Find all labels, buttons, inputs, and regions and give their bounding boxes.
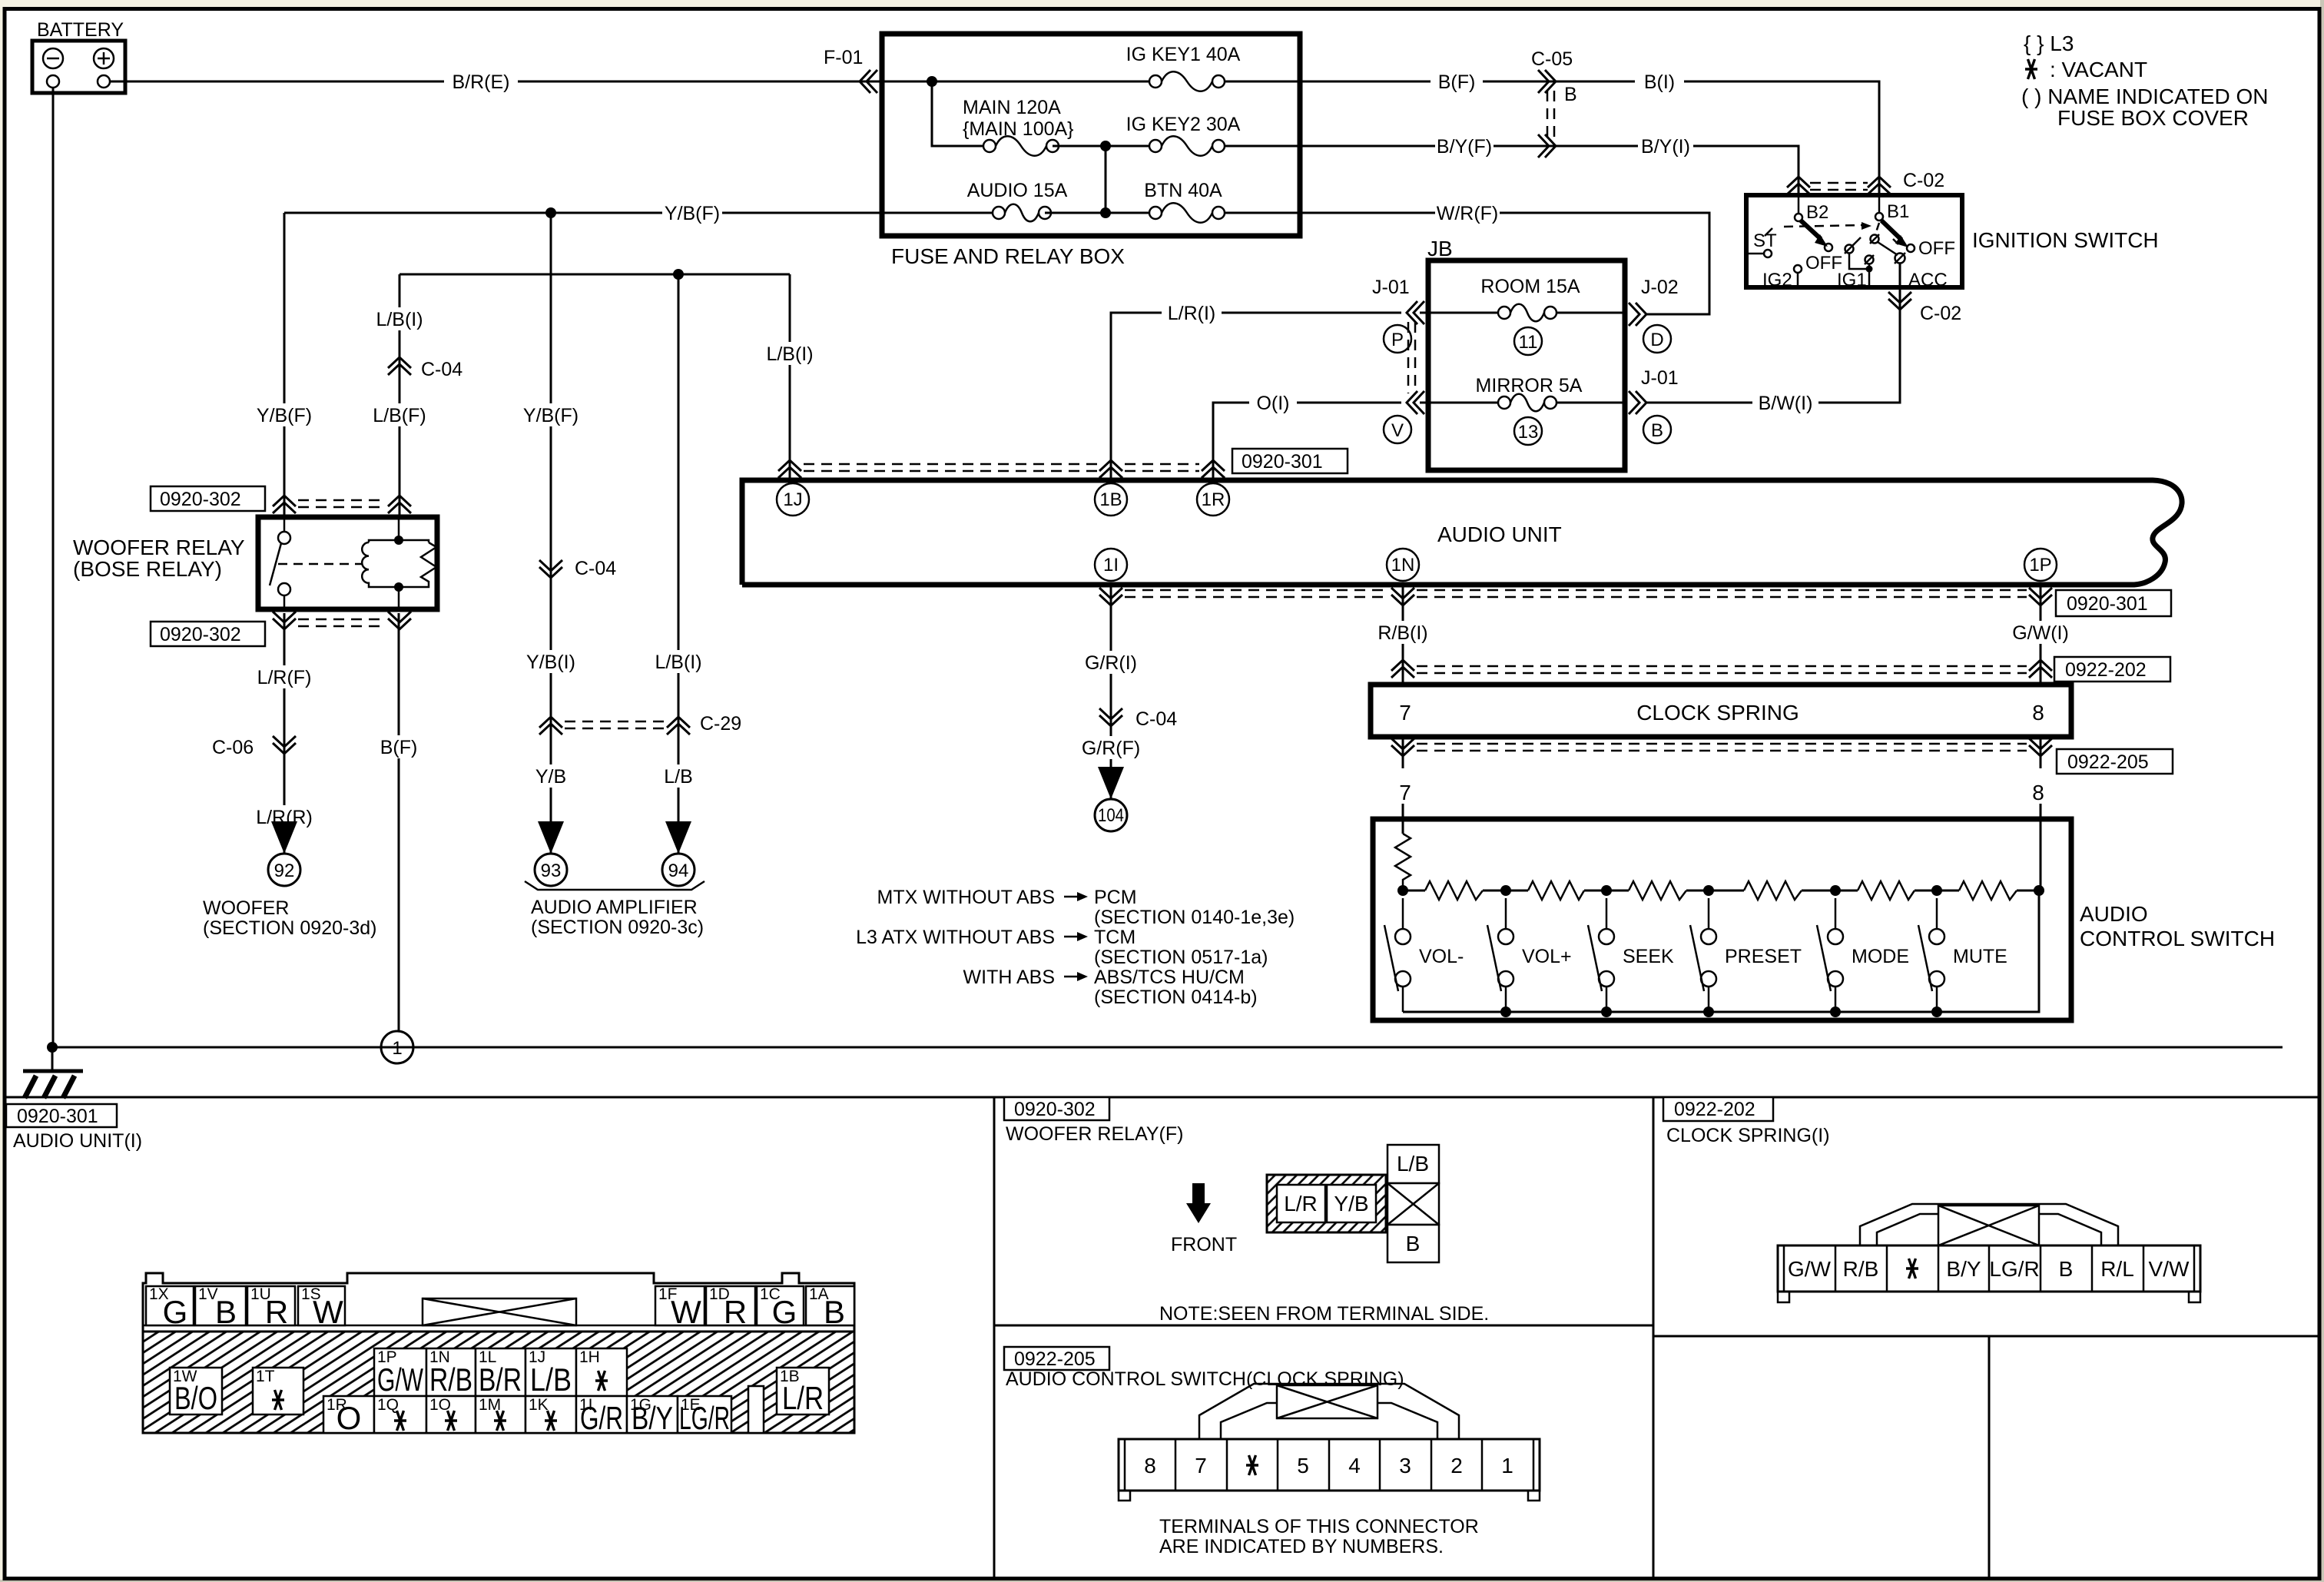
node D (1643, 325, 1671, 353)
svg-text:0920-301: 0920-301 (17, 1106, 98, 1127)
connector body (1119, 1439, 1540, 1491)
clock spring connector drawing (1778, 1204, 2200, 1302)
svg-text:LG/R: LG/R (679, 1400, 730, 1436)
svg-text:R/B: R/B (429, 1361, 472, 1398)
connector chevrons above audio unit (778, 460, 1225, 478)
svg-text:(SECTION 0414-b): (SECTION 0414-b) (1094, 987, 1258, 1008)
svg-text:B(I): B(I) (1644, 71, 1675, 93)
audio control switch connector drawing (1119, 1384, 1540, 1557)
relay coil (362, 519, 436, 607)
svg-text:ROOM 15A: ROOM 15A (1480, 276, 1580, 297)
svg-text:VOL-: VOL- (1419, 946, 1464, 967)
wire L/R(F) down (283, 613, 286, 854)
pin 1K vacant (525, 1396, 576, 1433)
connector 0920-302 upper label (151, 486, 265, 511)
node L/B branch (673, 269, 684, 280)
svg-text:IG KEY1 40A: IG KEY1 40A (1126, 44, 1241, 65)
divider vertical left (993, 1097, 996, 1577)
section 0922-205 label (1004, 1347, 1109, 1370)
wire ACC down to C-02 (1899, 263, 1901, 310)
svg-text:PRESET: PRESET (1725, 946, 1802, 967)
svg-text:R: R (724, 1294, 747, 1330)
svg-text:7: 7 (1195, 1454, 1207, 1478)
resistor vertical (1395, 834, 1411, 890)
svg-text:L/B(I): L/B(I) (655, 652, 701, 673)
svg-text:{MAIN 100A}: {MAIN 100A} (963, 118, 1074, 140)
svg-text:J-01: J-01 (1372, 277, 1410, 298)
arrow to 94 (665, 821, 691, 854)
svg-text:MAIN 120A: MAIN 120A (963, 97, 1061, 118)
resistor R4 (1744, 881, 1802, 900)
connector chevrons below audio unit (1099, 588, 2052, 605)
svg-text:C-02: C-02 (1920, 303, 1961, 324)
svg-text:PCM: PCM (1094, 887, 1137, 908)
resistor R2 (1528, 881, 1584, 900)
svg-text:C-02: C-02 (1903, 170, 1944, 191)
wire G/W(I) from 1P down (2040, 587, 2042, 685)
svg-text:Y/B: Y/B (535, 766, 566, 788)
svg-text:: VACANT: : VACANT (2050, 58, 2147, 81)
node 1 ground (381, 1031, 413, 1063)
svg-text:L/R(I): L/R(I) (1168, 303, 1216, 324)
pin 1J (777, 483, 809, 516)
svg-text:B/Y: B/Y (632, 1400, 673, 1436)
slot dividers (1835, 1245, 1837, 1292)
svg-text:94: 94 (668, 861, 689, 881)
divider right horizontal (1653, 1335, 2318, 1338)
keying crossed box (1938, 1206, 2039, 1245)
connector 0922-205 label (2057, 749, 2173, 774)
connector 0920-301 bottom label (2056, 590, 2171, 616)
svg-text:L/B: L/B (1397, 1152, 1429, 1176)
svg-text:B(F): B(F) (380, 737, 418, 758)
arrow to woofer (271, 821, 297, 854)
svg-text:FUSE BOX COVER: FUSE BOX COVER (2057, 106, 2249, 130)
connector 0922-202 label (2054, 657, 2170, 682)
svg-text:OFF: OFF (1918, 238, 1955, 259)
svg-text:B: B (824, 1294, 845, 1330)
pin 1A B (806, 1285, 854, 1330)
svg-text:Y/B: Y/B (1334, 1192, 1368, 1216)
pin 1I (1095, 549, 1127, 581)
pin B (1387, 1225, 1439, 1262)
terminal IG2 (1762, 265, 1802, 290)
label B(F) left (374, 735, 423, 758)
connector C-04 right (1099, 708, 1177, 730)
svg-text:L/B(F): L/B(F) (373, 405, 426, 426)
svg-text:B: B (215, 1294, 237, 1330)
svg-text:0922-205: 0922-205 (1014, 1348, 1096, 1370)
svg-text:L/B: L/B (664, 766, 693, 788)
wire junction down to MAIN fuse (932, 81, 983, 146)
label G/R(I) (1080, 651, 1142, 674)
svg-text:92: 92 (274, 861, 295, 881)
switch VOL- (1384, 898, 1411, 1012)
connector 0920-301 drawing (143, 1273, 854, 1436)
contact IG1 upper (1865, 255, 1874, 264)
bottom bus dots (1500, 1007, 1511, 1017)
pin 1N (1387, 549, 1419, 581)
connector C-02 bottom (1888, 292, 1961, 324)
svg-text:1: 1 (392, 1038, 402, 1059)
pin 1C G (757, 1285, 804, 1330)
wire Y/B(F) row to fuse box (284, 212, 882, 214)
resistor R3 (1629, 881, 1686, 900)
label Y/B (531, 764, 571, 788)
svg-text:C-05: C-05 (1531, 48, 1573, 70)
label L/R(R) (254, 805, 317, 828)
svg-text:IG2: IG2 (1762, 270, 1792, 290)
svg-text:5: 5 (1297, 1454, 1309, 1478)
arrow to 104 (1098, 767, 1124, 799)
amplifier bracket (525, 881, 704, 890)
svg-text:MODE: MODE (1852, 946, 1909, 967)
svg-text:1Q: 1Q (377, 1396, 399, 1414)
connector C-06 (212, 736, 296, 758)
svg-text:93: 93 (541, 861, 562, 881)
clock spring box (1371, 685, 2071, 737)
JB junction box (1428, 260, 1625, 470)
svg-text:Y/B(I): Y/B(I) (526, 652, 575, 673)
svg-text:L3 ATX WITHOUT ABS: L3 ATX WITHOUT ABS (856, 927, 1055, 948)
fuse IG KEY2 30A (1126, 114, 1241, 156)
svg-text:1I: 1I (1103, 555, 1119, 575)
pin 1B (1095, 483, 1127, 516)
svg-text:0920-302: 0920-302 (160, 489, 241, 510)
arm mid to ACC (1878, 242, 1898, 255)
svg-text:R/B(I): R/B(I) (1377, 622, 1427, 644)
wire L/R(I) from 1B to JB ROOM (1111, 313, 1401, 483)
connector J-01 V entry (1407, 391, 1424, 414)
svg-text:1P: 1P (2029, 555, 2051, 575)
switch MUTE (1918, 898, 1944, 1012)
svg-text:1H: 1H (579, 1348, 600, 1366)
battery (32, 19, 125, 93)
node 13 (1514, 417, 1542, 445)
svg-text:WITH ABS: WITH ABS (963, 967, 1055, 988)
svg-text:D: D (1650, 330, 1663, 350)
svg-text:ST: ST (1753, 231, 1777, 251)
svg-text:G/R: G/R (580, 1400, 623, 1436)
label B/R(E) (444, 69, 518, 94)
pin 1P G/W (374, 1348, 426, 1398)
resistor chain bus (1403, 890, 1425, 892)
svg-text:ABS/TCS HU/CM: ABS/TCS HU/CM (1094, 967, 1245, 988)
fuse BTN 40A (1144, 180, 1225, 223)
ignition switch box (1746, 195, 1962, 287)
node junction row1 (927, 76, 937, 87)
svg-text:AUDIO 15A: AUDIO 15A (967, 180, 1068, 201)
wire AUDIO out to BTN (1045, 212, 1149, 214)
ground symbol (23, 1047, 83, 1098)
ground bus (52, 1046, 2283, 1049)
wire row1 inside fuse box (882, 81, 1149, 83)
connector C-05 (1531, 48, 1577, 158)
svg-text:B(F): B(F) (1438, 71, 1476, 93)
pin 1U R (247, 1285, 295, 1330)
svg-text:O(I): O(I) (1256, 393, 1289, 414)
feet (1778, 1292, 1789, 1302)
connector 0922-202 chevrons (1391, 660, 2052, 678)
connector hood (1860, 1204, 2118, 1245)
svg-text:L/B: L/B (530, 1361, 572, 1398)
svg-text:B: B (1406, 1232, 1421, 1255)
svg-text:0920-302: 0920-302 (160, 624, 241, 645)
svg-text:Y/B(F): Y/B(F) (665, 203, 720, 224)
switch SEEK (1588, 898, 1614, 1012)
svg-text:B/R: B/R (479, 1361, 522, 1398)
connector F-01 (824, 47, 877, 93)
svg-text:C-04: C-04 (1135, 708, 1177, 730)
svg-text:1: 1 (1501, 1454, 1513, 1478)
wire L/B(I) to audio unit 1J (789, 274, 791, 483)
svg-text:AUDIO UNIT(I): AUDIO UNIT(I) (13, 1130, 142, 1152)
svg-text:(BOSE RELAY): (BOSE RELAY) (73, 557, 222, 581)
label L/R(I) (1162, 301, 1222, 324)
pin 1O vacant (426, 1396, 476, 1433)
wire 8 to audio control switch (2040, 804, 2042, 890)
svg-text:7: 7 (1399, 781, 1411, 804)
connector J-01 B exit (1629, 367, 1679, 414)
svg-text:B/W(I): B/W(I) (1759, 393, 1813, 414)
pin 1E LG/R (678, 1396, 731, 1436)
label L/B(I) amp (649, 650, 708, 673)
node 94 (662, 854, 695, 886)
svg-text:BATTERY: BATTERY (37, 19, 124, 41)
svg-text:0922-202: 0922-202 (1674, 1099, 1755, 1120)
connector body (1778, 1245, 2200, 1292)
pin 1J L/B (525, 1348, 576, 1398)
wire W/R row3 fuse box to JB J-02 (1300, 213, 1709, 314)
section 0920-302 label (1004, 1097, 1109, 1120)
fuse ROOM 15A (1480, 276, 1580, 321)
label B(F) (1431, 70, 1483, 93)
svg-text:2: 2 (1450, 1454, 1463, 1478)
pin 1H vacant (576, 1348, 627, 1396)
divider vertical right (1653, 1097, 1655, 1577)
pin 1V B (195, 1285, 246, 1330)
node 92 (268, 854, 300, 886)
label Y/B(F) amp (520, 403, 582, 426)
pin 1R O (323, 1396, 374, 1436)
svg-text:C-04: C-04 (421, 359, 462, 380)
svg-text:VOL+: VOL+ (1522, 946, 1572, 967)
connector C-29 (539, 713, 741, 735)
node 11 (1514, 327, 1542, 355)
svg-text:G/W: G/W (377, 1361, 423, 1398)
svg-text:L/R: L/R (782, 1380, 824, 1416)
keying crossed box (1277, 1385, 1377, 1418)
svg-text:(SECTION 0920-3d): (SECTION 0920-3d) (203, 917, 376, 939)
svg-text:WOOFER: WOOFER (203, 897, 290, 919)
svg-text:WOOFER RELAY(F): WOOFER RELAY(F) (1006, 1123, 1183, 1145)
node B (1643, 416, 1671, 443)
label Y/B(I) (522, 650, 580, 673)
contact ACC (1895, 253, 1948, 290)
svg-text:R/B: R/B (1843, 1257, 1879, 1281)
feet (1119, 1491, 1130, 1501)
label B/Y(F) (1435, 134, 1494, 158)
node 93 (535, 854, 567, 886)
wire row3 audio fuse (882, 212, 993, 214)
svg-text:CLOCK SPRING(I): CLOCK SPRING(I) (1666, 1125, 1830, 1146)
label W/R(F) (1435, 201, 1500, 224)
slot dividers (1175, 1439, 1177, 1491)
section 0920-301 label (6, 1104, 117, 1127)
label G/R(F) (1079, 736, 1143, 759)
svg-text:13: 13 (1518, 422, 1539, 443)
svg-text:JB: JB (1427, 237, 1453, 260)
terminal vacant (1246, 1455, 1258, 1475)
label L/R(F) (254, 665, 315, 688)
pin L/R (1277, 1185, 1325, 1222)
relay connector hatched shell (1267, 1175, 1386, 1232)
dashed tick right (1893, 239, 1898, 244)
pin Y/B (1327, 1185, 1376, 1222)
legend (2021, 32, 2268, 130)
node Y/B branch (545, 207, 556, 218)
svg-text:1R: 1R (1202, 489, 1225, 510)
divider middle horizontal (994, 1325, 1653, 1327)
pin 1P (2024, 549, 2057, 581)
wire L/B down to amplifier (678, 274, 680, 854)
wire B/W(I) J-01 to ignition (1646, 402, 1817, 404)
wire Y/B(F) down to woofer relay (283, 213, 286, 519)
relay switch (270, 519, 363, 607)
svg-text:8: 8 (1144, 1454, 1156, 1478)
svg-text:8: 8 (2032, 701, 2044, 725)
terminal vacant (1906, 1259, 1918, 1279)
svg-text:{ } L3: { } L3 (2024, 32, 2074, 55)
fuse MIRROR 5A (1476, 375, 1583, 411)
pin 1D R (706, 1285, 755, 1330)
wire MIRROR row in JB (1420, 402, 1498, 404)
fuse AUDIO 15A (967, 180, 1068, 221)
label B/Y(I) (1638, 134, 1693, 158)
label B/W(I) (1752, 391, 1818, 414)
svg-text:Y/B(F): Y/B(F) (257, 405, 312, 426)
svg-text:8: 8 (2032, 781, 2044, 804)
svg-text:FUSE AND RELAY BOX: FUSE AND RELAY BOX (891, 244, 1125, 268)
svg-text:L/R(F): L/R(F) (257, 667, 312, 688)
switch VOL+ (1487, 898, 1513, 1012)
label R/B(I) (1372, 621, 1434, 644)
label G/W(I) (2007, 621, 2074, 644)
svg-text:W: W (671, 1294, 701, 1330)
svg-text:104: 104 (1098, 805, 1124, 826)
resistor R5 (1858, 881, 1915, 900)
node 104 (1095, 799, 1127, 831)
keying slot (748, 1386, 764, 1433)
svg-text:0922-202: 0922-202 (2065, 659, 2147, 681)
svg-text:MIRROR 5A: MIRROR 5A (1476, 375, 1583, 396)
svg-text:1N: 1N (1391, 555, 1415, 575)
audio unit box (742, 480, 2182, 585)
divider bottom right vertical (1988, 1336, 1991, 1577)
resistor R1 (1425, 881, 1483, 900)
svg-text:V/W: V/W (2149, 1257, 2190, 1281)
svg-text:ARE INDICATED BY NUMBERS.: ARE INDICATED BY NUMBERS. (1159, 1536, 1444, 1557)
woofer relay connector drawing (1159, 1145, 1489, 1325)
svg-text:C-06: C-06 (212, 737, 254, 758)
svg-text:CONTROL SWITCH: CONTROL SWITCH (2080, 927, 2275, 950)
svg-text:B: B (1564, 84, 1577, 105)
svg-text:W: W (313, 1294, 343, 1330)
wire IG1 network (1849, 253, 1869, 269)
FRONT arrow (1192, 1183, 1205, 1203)
svg-text:TCM: TCM (1094, 927, 1135, 948)
fuse IG KEY1 40A (1126, 44, 1241, 91)
contact mid upper (1870, 234, 1879, 244)
bus junction dots (1397, 885, 1408, 896)
section 0922-202 label (1663, 1097, 1773, 1121)
wire 7 to audio control switch (1402, 804, 1404, 834)
svg-text:AUDIO AMPLIFIER: AUDIO AMPLIFIER (531, 897, 698, 918)
svg-text:G: G (163, 1294, 188, 1330)
svg-text:(SECTION 0517-1a): (SECTION 0517-1a) (1094, 947, 1268, 968)
wire battery negative to ground (52, 88, 55, 1047)
connector entry chevrons above relay (273, 496, 411, 513)
wire O(I) from 1R to JB MIRROR (1213, 403, 1401, 483)
svg-text:G/R(F): G/R(F) (1082, 738, 1140, 759)
ground junction node (47, 1042, 58, 1053)
svg-text:B/Y: B/Y (1946, 1257, 1981, 1281)
svg-text:B/O: B/O (174, 1380, 217, 1416)
switch arm B1 to OFF (1881, 221, 1955, 259)
svg-text:IGNITION SWITCH: IGNITION SWITCH (1972, 228, 2159, 252)
wire B/R(E) battery to fuse box (110, 81, 880, 83)
svg-text:4: 4 (1348, 1454, 1361, 1478)
svg-text:L/R: L/R (1284, 1192, 1318, 1216)
svg-text:BTN 40A: BTN 40A (1144, 180, 1222, 201)
keying crossed box (423, 1298, 576, 1325)
svg-text:G/W: G/W (1788, 1257, 1832, 1281)
connector C-04 left (388, 357, 462, 380)
svg-text:WOOFER RELAY: WOOFER RELAY (73, 536, 245, 559)
fuse MAIN 120A (963, 97, 1074, 156)
svg-text:MUTE: MUTE (1953, 946, 2007, 967)
svg-text:7: 7 (1399, 701, 1411, 725)
svg-text:3: 3 (1399, 1454, 1411, 1478)
connector hatched body (143, 1332, 854, 1433)
bottom bus (1403, 890, 2039, 1012)
pin 1M vacant (476, 1396, 525, 1433)
connector J-02 D exit (1629, 277, 1679, 326)
svg-text:B/R(E): B/R(E) (453, 71, 510, 93)
terminal ST (1749, 231, 1777, 257)
node P (1384, 325, 1411, 353)
connector 0920-302 lower label (151, 622, 265, 646)
label Y/B(F) row (662, 201, 722, 224)
svg-text:11: 11 (1519, 332, 1538, 353)
pin 1G B/Y (627, 1396, 678, 1436)
svg-text:J-02: J-02 (1641, 277, 1679, 298)
svg-text:B2: B2 (1806, 202, 1828, 223)
svg-text:O: O (336, 1400, 362, 1436)
svg-text:IG1: IG1 (1837, 270, 1867, 290)
label L/B (658, 764, 698, 788)
wire ROOM row in JB (1420, 312, 1498, 314)
svg-text:1T: 1T (256, 1368, 275, 1385)
svg-text:G/R(I): G/R(I) (1085, 652, 1137, 674)
arrow to 93 (538, 821, 564, 854)
connector hood (1199, 1384, 1459, 1438)
keying crossed box (1387, 1183, 1439, 1225)
label PCM TCM ABS (856, 887, 1295, 1008)
wire BTN out (1225, 212, 1300, 214)
switch arm B2 to OFF (1801, 221, 1842, 274)
terminal B2 (1795, 194, 1828, 223)
